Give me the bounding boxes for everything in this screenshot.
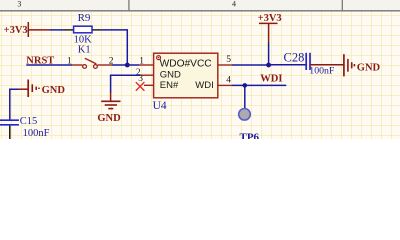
wire NRST to K1: [26, 64, 72, 66]
svg-text:GND: GND: [160, 69, 181, 80]
pin 1 WDO#: [139, 56, 154, 66]
pin 4 WDI: [218, 75, 232, 85]
svg-text:1: 1: [67, 57, 72, 67]
svg-text:3: 3: [17, 0, 21, 8]
wire C28 to GND (right): [310, 64, 344, 66]
wire K1 to junction: [112, 64, 127, 66]
svg-text:1: 1: [139, 56, 144, 66]
svg-text:4: 4: [232, 0, 236, 8]
svg-text:3: 3: [138, 74, 143, 84]
pin 5 VCC: [218, 55, 232, 65]
capacitor C28: [284, 51, 335, 77]
power port +3V3 (right): [258, 13, 282, 43]
svg-text:5: 5: [226, 55, 231, 65]
wire junction B up: [268, 43, 270, 66]
svg-text:TP6: TP6: [240, 131, 260, 139]
power port +3V3 (left): [4, 22, 50, 37]
wire pin 4 / net WDI: [232, 84, 286, 86]
pin 2 GND: [136, 68, 154, 78]
pin 3 EN# with no-ERC cross: [136, 74, 154, 91]
wire +3V3 to R9: [50, 29, 65, 31]
power ground GND (right, rotated bars): [344, 54, 381, 76]
svg-text:100nF: 100nF: [309, 66, 335, 77]
svg-text:WDO#VCC: WDO#VCC: [160, 58, 212, 69]
wire U4 pin 2 to ground: [111, 75, 141, 92]
wire junction to U4 pin 1: [127, 64, 139, 66]
svg-text:K1: K1: [78, 44, 91, 55]
svg-text:GND: GND: [97, 113, 121, 124]
junction node C: [243, 83, 248, 88]
svg-text:WDI: WDI: [260, 74, 282, 85]
svg-text:GND: GND: [357, 62, 381, 73]
junction node B: [266, 63, 271, 68]
svg-text:EN#: EN#: [160, 80, 179, 91]
capacitor C15: [0, 116, 50, 139]
wire junction B to C28: [269, 64, 306, 66]
svg-text:R9: R9: [78, 12, 91, 24]
ground (earth) below K1: [97, 92, 121, 124]
IC U4: [153, 53, 218, 112]
power ground GND (left, rotated bars): [19, 80, 66, 98]
svg-text:U4: U4: [153, 100, 167, 112]
svg-text:C28: C28: [284, 51, 305, 65]
switch K1: [67, 44, 114, 68]
svg-text:100nF: 100nF: [23, 128, 50, 139]
junction node A: [125, 63, 130, 68]
svg-text:GND: GND: [42, 85, 66, 96]
svg-text:+3V3: +3V3: [258, 13, 282, 24]
wire junction C to TP6: [244, 85, 246, 108]
wire C15 to ground (left): [10, 89, 19, 119]
wire below C15: [9, 126, 11, 139]
wire pin 5 to junction B: [232, 64, 269, 66]
svg-text:C15: C15: [20, 116, 38, 127]
resistor R9: [64, 12, 102, 46]
svg-text:+3V3: +3V3: [4, 25, 28, 36]
svg-text:WDI: WDI: [195, 80, 213, 91]
test point TP6: [239, 109, 260, 144]
wire R9 to junction (corner): [102, 30, 128, 65]
svg-text:4: 4: [226, 75, 231, 85]
